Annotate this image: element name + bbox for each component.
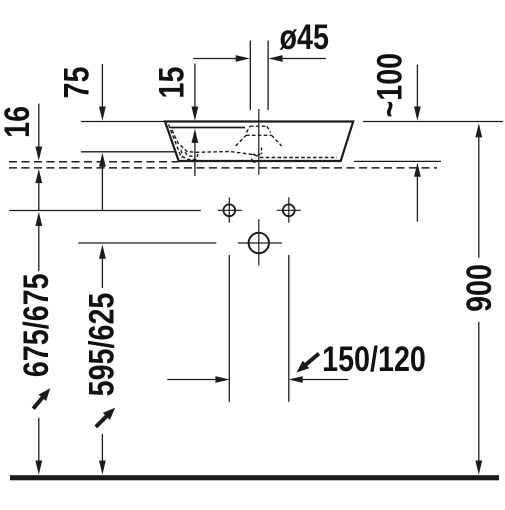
svg-text:16: 16 [0,106,37,138]
svg-text:~100: ~100 [370,53,409,118]
svg-text:900: 900 [459,264,498,312]
svg-text:675/675: 675/675 [16,273,55,377]
svg-text:150/120: 150/120 [322,339,426,378]
svg-text:15: 15 [152,67,191,99]
svg-text:75: 75 [57,67,96,99]
svg-text:ø45: ø45 [279,17,328,56]
svg-text:595/625: 595/625 [82,293,121,397]
